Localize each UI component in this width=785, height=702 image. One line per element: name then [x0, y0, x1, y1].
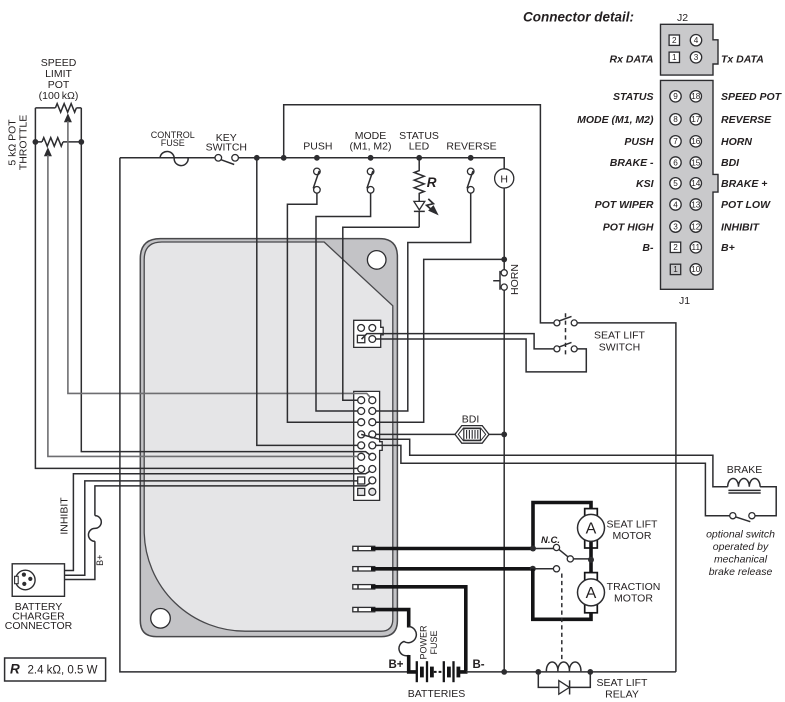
svg-text:PUSH: PUSH	[303, 141, 332, 153]
J1 pin row 1/10 (unused)	[358, 488, 365, 495]
terminal M2 (spade)	[353, 567, 375, 571]
J1 pin row 4/13	[358, 453, 365, 460]
J2 detail pin 4	[690, 35, 701, 46]
svg-text:17: 17	[691, 115, 701, 124]
svg-text:CONNECTOR: CONNECTOR	[5, 620, 73, 632]
svg-text:1: 1	[672, 53, 677, 62]
wire M2 terminal to NC contact (thick)	[371, 567, 533, 571]
mechanical link relay (dashed)	[561, 574, 563, 660]
wire status led to pin 9	[343, 227, 419, 400]
J1 pin row 3/12	[358, 466, 365, 473]
svg-text:MOTOR: MOTOR	[614, 593, 653, 605]
svg-text:B+: B+	[721, 242, 735, 254]
wire mode to pin 8	[316, 193, 371, 411]
svg-text:2: 2	[672, 36, 677, 45]
wire battery B- to relay line	[466, 671, 676, 673]
svg-text:12: 12	[691, 222, 701, 231]
wire seat lift switch return to J2 pin	[376, 339, 587, 372]
svg-text:J2: J2	[677, 12, 688, 24]
svg-text:POT HIGH: POT HIGH	[603, 221, 654, 233]
wire pin 6 (BRAKE-) to brake coil	[361, 434, 728, 486]
controller U1 body (outer case)	[140, 239, 397, 637]
svg-text:2: 2	[673, 243, 678, 252]
svg-text:FUSE: FUSE	[161, 138, 185, 148]
battery charger connector P1	[12, 564, 64, 597]
wire throttle pot leads	[35, 141, 81, 143]
J1 detail pin 7/16	[670, 136, 681, 147]
svg-text:11: 11	[692, 243, 701, 252]
svg-text:TRACTION: TRACTION	[607, 581, 661, 593]
fuse F2 power fuse	[399, 627, 416, 656]
connector detail J2 body	[661, 24, 719, 75]
svg-text:15: 15	[691, 158, 701, 167]
J2 pin (bottom-right)	[369, 336, 376, 343]
svg-text:14: 14	[691, 179, 701, 188]
svg-text:RELAY: RELAY	[605, 688, 639, 700]
svg-text:8: 8	[673, 115, 678, 124]
node horn tap junction	[501, 257, 507, 263]
svg-text:18: 18	[691, 92, 701, 101]
wire seat lift switch upper to relay line	[577, 323, 676, 672]
svg-text:BRAKE -: BRAKE -	[610, 157, 654, 169]
wire B+ terminal to power fuse (thick)	[371, 610, 409, 628]
J2 detail pin 1	[669, 52, 679, 62]
svg-text:SEAT LIFT: SEAT LIFT	[594, 330, 646, 342]
relay suppression diode D2	[538, 672, 590, 688]
wire main KSI bus	[120, 158, 504, 169]
resistor R3 throttle pot 5k (zigzag)	[42, 138, 63, 147]
wiper arrow of speed limit pot (SPEED POT)	[64, 113, 72, 122]
resistor R2 speed limit pot 100k (zigzag)	[55, 104, 76, 113]
switch S6 seat lift switch (upper pole)	[554, 320, 560, 326]
connector J2 (4-pin, inside controller)	[354, 320, 384, 347]
svg-text:BDI: BDI	[462, 414, 480, 426]
svg-text:INHIBIT: INHIBIT	[58, 497, 70, 535]
node M1 junction	[530, 546, 536, 552]
J1 detail pin 5/14	[670, 178, 681, 189]
svg-text:B+: B+	[95, 555, 105, 566]
wire charger B- to pin 2	[65, 481, 358, 575]
svg-text:3: 3	[694, 53, 699, 62]
wire horn to push button	[503, 188, 505, 270]
mounting hole top-right	[367, 251, 386, 270]
wire push to pin 7	[287, 193, 357, 422]
wiper arrow of throttle pot (POT WIPER)	[44, 147, 52, 156]
J2 pin (bottom-left, square)	[357, 335, 364, 342]
wire pot loop left vertical (POT HIGH)	[35, 108, 357, 469]
svg-text:Connector detail:: Connector detail:	[523, 10, 634, 25]
svg-text:A: A	[586, 521, 597, 538]
wire inhibit: charger to pin 12	[65, 471, 371, 570]
connector J1 (18-pin header, inside controller)	[354, 391, 383, 500]
wire horn tap to pin 16	[376, 259, 504, 422]
svg-text:H: H	[500, 173, 508, 185]
svg-text:POT LOW: POT LOW	[721, 199, 771, 211]
svg-text:7: 7	[673, 137, 678, 146]
node B- line junction	[501, 669, 507, 675]
wire B+ left loop (key switch supply)	[120, 158, 409, 672]
node BDI junction	[501, 432, 507, 438]
mechanical link seat lift switch (dashed)	[565, 313, 567, 355]
svg-text:10: 10	[691, 265, 701, 274]
svg-text:B-: B-	[473, 659, 485, 671]
svg-text:16: 16	[691, 137, 701, 146]
J1 detail pin 6/15	[670, 157, 681, 168]
wire M2 to traction motor bottom (thick)	[533, 569, 591, 620]
svg-text:SWITCH: SWITCH	[599, 342, 640, 354]
J2 pin (top-right)	[369, 325, 376, 332]
wire pin 14 (BRAKE+) to brake switch	[376, 445, 730, 515]
svg-text:BRAKE +: BRAKE +	[721, 178, 767, 190]
svg-text:KSI: KSI	[636, 178, 655, 190]
node bus-reverse junction	[468, 155, 474, 161]
LED emission arrows	[427, 199, 434, 209]
svg-text:mechanical: mechanical	[714, 554, 768, 566]
switch S7 brake release switch	[730, 513, 736, 519]
svg-text:operated by: operated by	[713, 541, 769, 553]
connector detail J1 body	[661, 80, 719, 289]
svg-text:A: A	[586, 585, 597, 602]
motor M1 seat lift motor	[585, 509, 598, 518]
svg-text:2.4 kΩ, 0.5 W: 2.4 kΩ, 0.5 W	[28, 665, 98, 677]
svg-text:POWER: POWER	[419, 625, 429, 660]
svg-text:HORN: HORN	[509, 264, 521, 295]
wire M1 junction to NC contact	[533, 548, 553, 550]
motor M2 traction motor	[585, 573, 598, 582]
svg-text:BRAKE: BRAKE	[727, 464, 763, 476]
J1 detail pin 1/10	[670, 264, 680, 274]
wire reverse to pin 17	[376, 193, 471, 411]
svg-text:MOTOR: MOTOR	[613, 530, 652, 542]
J1 pin row 2/11 (square B-)	[358, 477, 365, 484]
J1 pin row 9/18	[358, 397, 365, 404]
switch S6 seat lift switch (lower pole)	[554, 346, 560, 352]
J2 detail pin 2	[669, 35, 679, 45]
svg-text:1: 1	[673, 265, 678, 274]
svg-text:HORN: HORN	[721, 136, 752, 148]
svg-text:R: R	[10, 662, 20, 677]
svg-text:3: 3	[673, 222, 678, 231]
J1 pin row 7/16	[358, 419, 365, 426]
svg-text:4: 4	[694, 36, 699, 45]
relay contact K1 (N.C. to seat lift motor)	[553, 544, 559, 550]
node bus to top loop	[281, 155, 287, 161]
J1 detail pin 9/18	[670, 91, 681, 102]
node bus-mode junction	[368, 155, 374, 161]
wire M1 terminal to seat lift motor loop (thick)	[371, 503, 591, 549]
svg-text:(M1, M2): (M1, M2)	[350, 141, 392, 153]
wire B- terminal to battery (thick)	[371, 587, 468, 672]
legend box: R value	[5, 658, 106, 681]
svg-text:J1: J1	[679, 295, 690, 307]
svg-text:4: 4	[673, 200, 678, 209]
node bus-status junction	[416, 155, 422, 161]
mounting hole bottom-left	[151, 609, 171, 629]
wire BDI to B- line	[489, 433, 504, 435]
resistor R1 (status led series)	[414, 158, 424, 195]
J1 detail pin 8/17	[670, 114, 681, 125]
svg-text:REVERSE: REVERSE	[721, 114, 772, 126]
J2 pin (top-left)	[358, 325, 365, 332]
svg-text:INHIBIT: INHIBIT	[721, 221, 761, 233]
svg-text:BATTERIES: BATTERIES	[408, 688, 466, 700]
node pot high junction	[33, 139, 39, 145]
J1 detail pin 4/13	[670, 199, 681, 210]
svg-text:BDI: BDI	[721, 157, 740, 169]
svg-text:9: 9	[673, 92, 678, 101]
node pot low junction	[78, 139, 84, 145]
switch S1 key switch	[215, 155, 222, 162]
svg-text:optional switch: optional switch	[706, 529, 775, 541]
svg-text:POT WIPER: POT WIPER	[595, 199, 654, 211]
wire horn button to B- line	[503, 290, 505, 672]
relay K1 coil seat lift relay	[535, 669, 541, 675]
svg-text:FUSE: FUSE	[429, 630, 439, 654]
svg-text:6: 6	[673, 158, 678, 167]
J1 pin row 6/15	[358, 431, 365, 438]
terminal B- (spade)	[353, 585, 375, 589]
svg-text:REVERSE: REVERSE	[446, 141, 496, 153]
controller U1 top face with beveled corner	[144, 242, 393, 631]
svg-text:(100 kΩ): (100 kΩ)	[39, 90, 79, 102]
svg-text:LED: LED	[409, 141, 430, 153]
svg-text:SPEED POT: SPEED POT	[721, 91, 783, 103]
svg-text:SEAT LIFT: SEAT LIFT	[607, 519, 659, 531]
svg-text:STATUS: STATUS	[613, 91, 653, 103]
wire charger B+ to pin 11 (with breaker)	[65, 483, 371, 579]
J1 detail pin 2/11	[670, 242, 680, 252]
breaker CB1 on charger B+	[88, 516, 101, 542]
svg-text:SEAT LIFT: SEAT LIFT	[597, 677, 649, 689]
terminal B+ (spade)	[353, 607, 375, 611]
svg-text:13: 13	[691, 200, 701, 209]
J2 detail pin 3	[690, 52, 701, 63]
wire top loop to seat lift switch	[284, 105, 554, 323]
svg-text:B-: B-	[642, 242, 654, 254]
terminal M1 (spade)	[353, 546, 375, 550]
brake coil core	[728, 490, 760, 493]
J1 pin row 8/17	[358, 408, 365, 415]
node bus-KSI junction	[254, 155, 260, 161]
svg-text:THROTTLE: THROTTLE	[18, 115, 30, 170]
J1 detail pin 3/12	[670, 221, 681, 232]
svg-text:Rx DATA: Rx DATA	[610, 53, 654, 65]
horn H1	[495, 169, 514, 188]
switch S5 horn push button	[501, 270, 507, 276]
wire pot loop right vertical (POT LOW)	[81, 108, 370, 455]
wire KSI to pin 5	[257, 158, 358, 446]
inductor L1 brake coil	[728, 478, 760, 486]
svg-text:Tx DATA: Tx DATA	[721, 53, 764, 65]
wire J2 pin to seat lift switch (feed)	[362, 334, 554, 349]
svg-text:B+: B+	[388, 659, 403, 671]
svg-text:brake release: brake release	[709, 566, 773, 578]
J1 pin row 5/14	[358, 442, 365, 449]
wire pin 15 to BDI	[376, 433, 455, 435]
svg-text:MODE (M1, M2): MODE (M1, M2)	[577, 114, 654, 126]
svg-text:SWITCH: SWITCH	[206, 142, 247, 154]
node bus-push junction	[314, 155, 320, 161]
svg-text:R: R	[427, 175, 437, 190]
wire pot loop top	[35, 107, 81, 109]
wire power fuse to battery plus (thick)	[409, 655, 417, 672]
svg-text:5: 5	[673, 179, 678, 188]
LED D1 status	[414, 201, 425, 210]
fuse F1 control fuse	[160, 151, 188, 165]
svg-text:PUSH: PUSH	[624, 136, 654, 148]
